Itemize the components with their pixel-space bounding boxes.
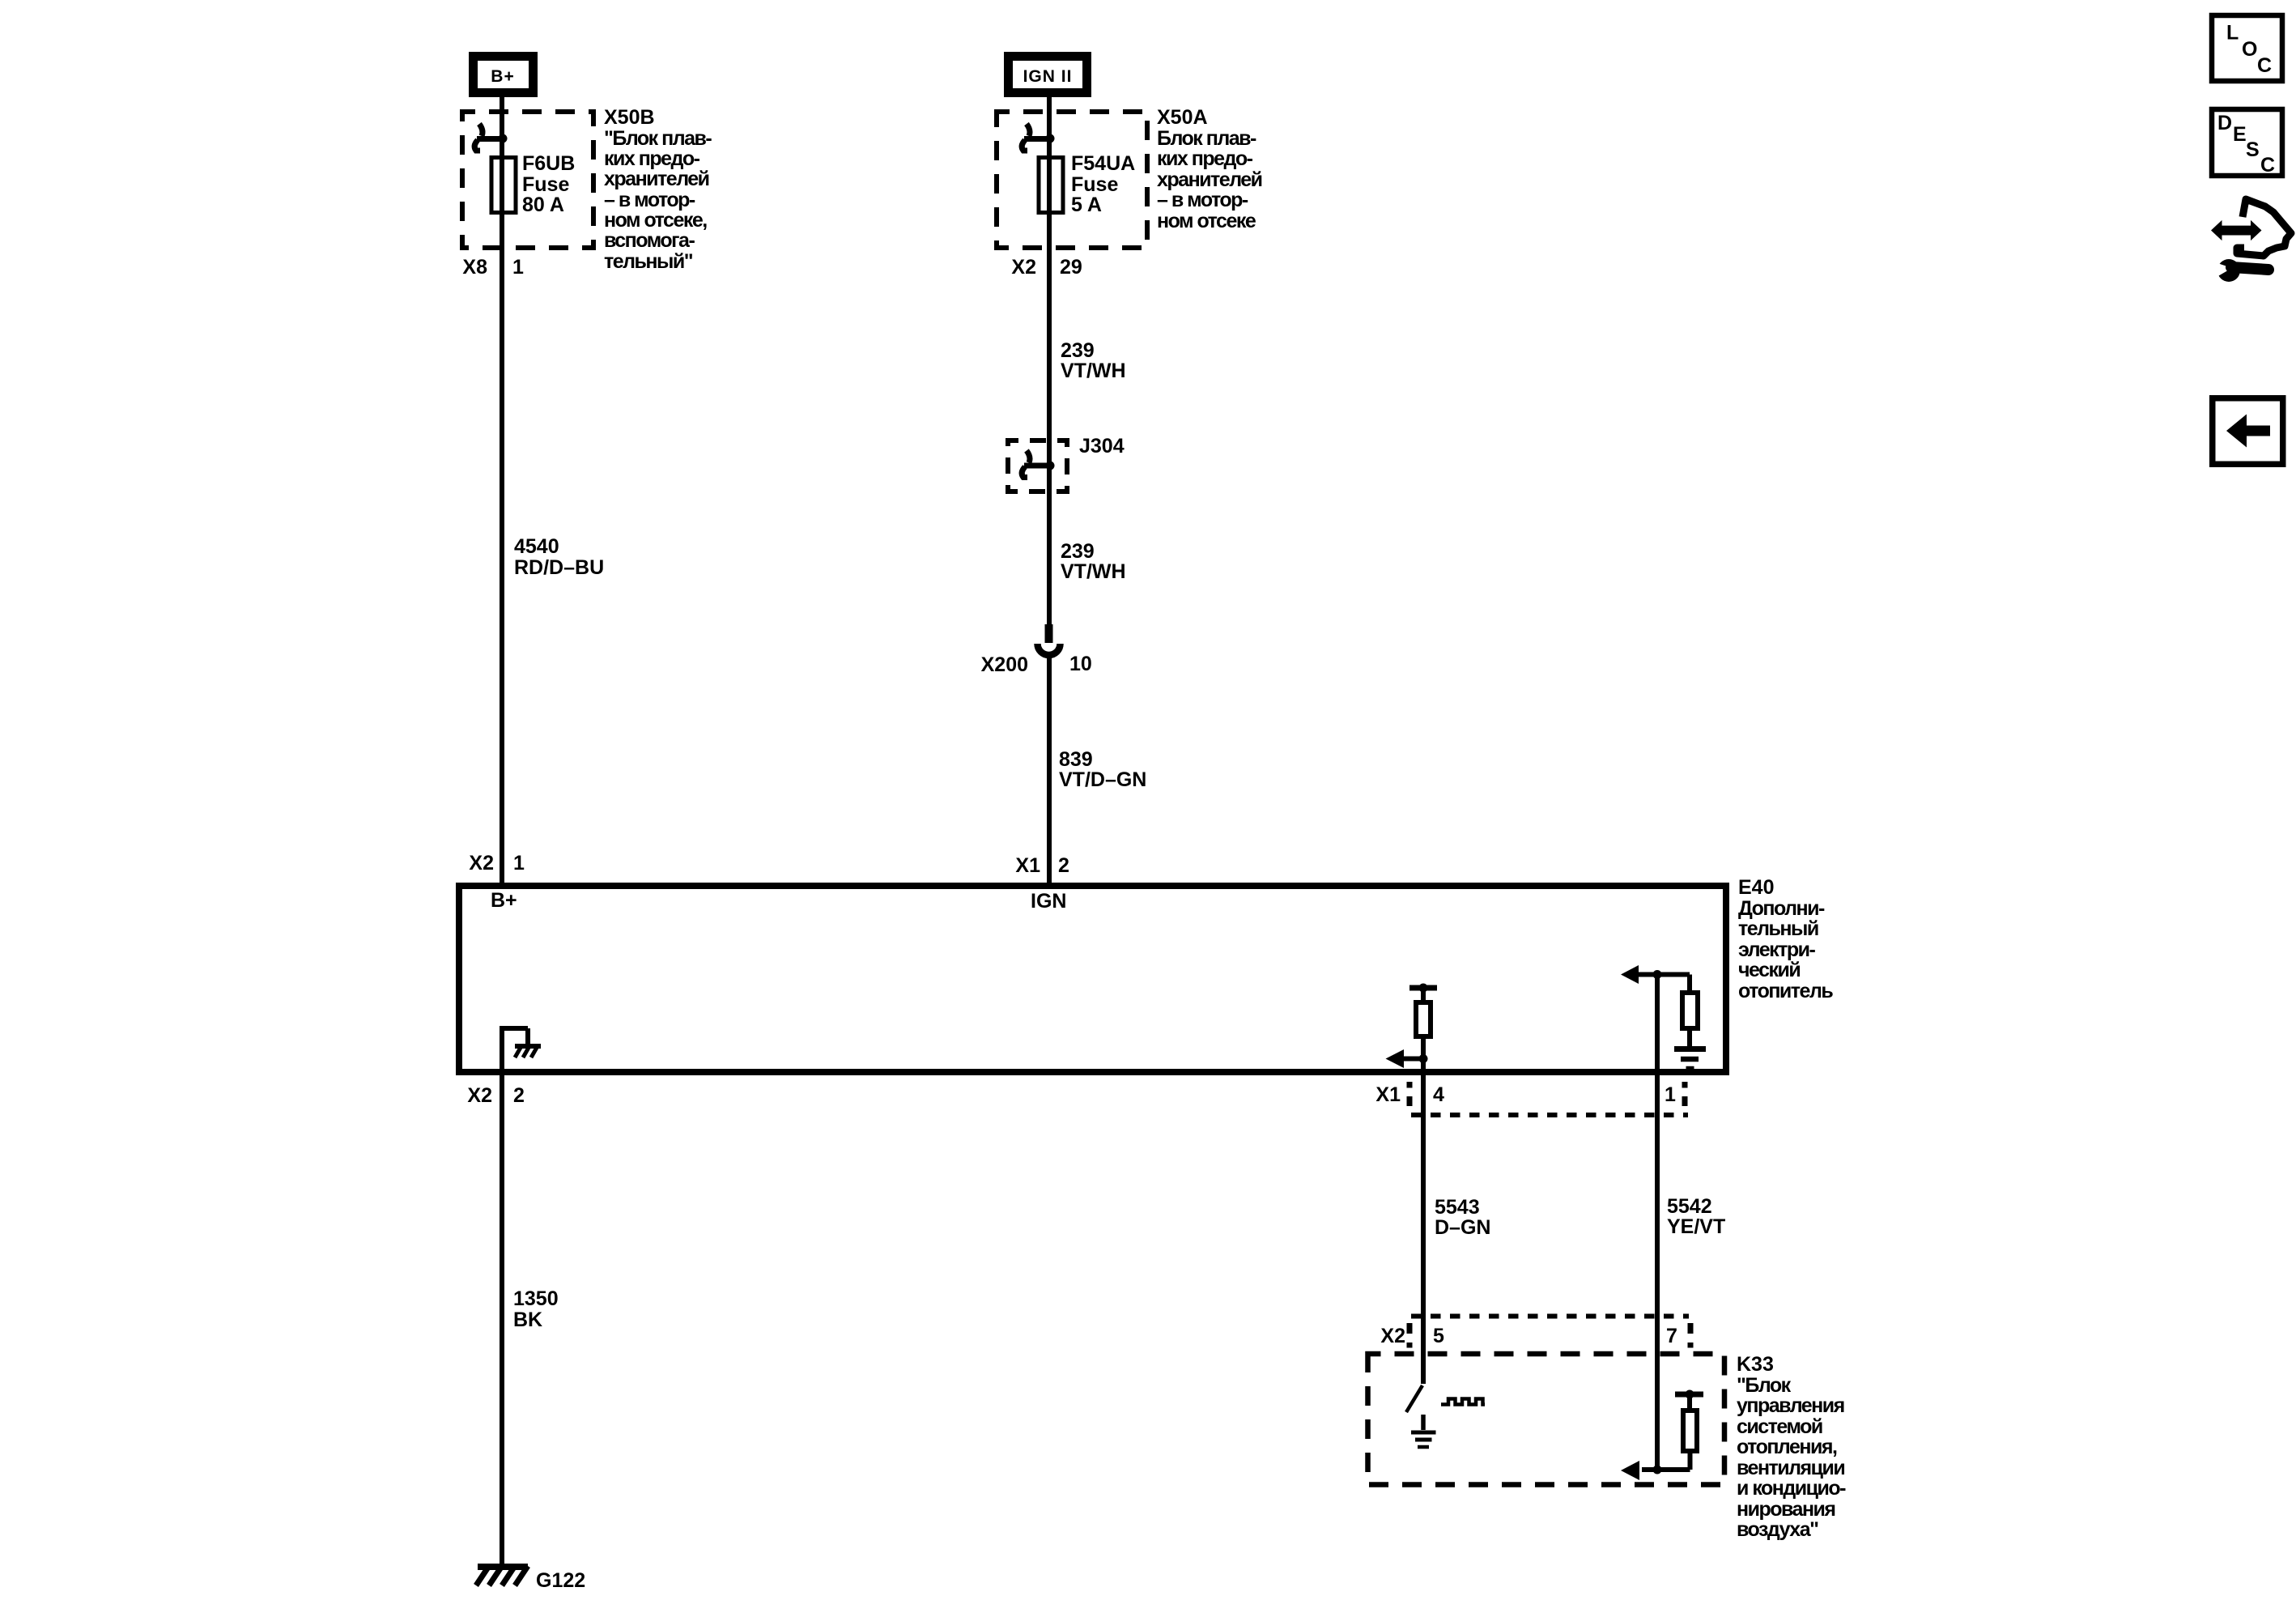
svg-text:1350: 1350	[513, 1287, 559, 1310]
svg-text:системой: системой	[1737, 1415, 1822, 1438]
svg-text:839: 839	[1059, 748, 1093, 771]
svg-text:Дополни-: Дополни-	[1738, 897, 1825, 920]
svg-text:X2: X2	[467, 1084, 492, 1107]
svg-text:вспомога-: вспомога-	[604, 229, 695, 252]
svg-text:RD/D–BU: RD/D–BU	[514, 556, 604, 579]
svg-text:2: 2	[513, 1084, 525, 1107]
svg-text:29: 29	[1060, 256, 1082, 279]
svg-text:YE/VT: YE/VT	[1667, 1215, 1725, 1238]
svg-text:7: 7	[1666, 1325, 1677, 1347]
svg-text:E: E	[2233, 123, 2247, 146]
svg-text:5 A: 5 A	[1071, 194, 1102, 216]
svg-text:X50A: X50A	[1157, 106, 1208, 129]
svg-text:1: 1	[512, 256, 524, 279]
svg-text:отопитель: отопитель	[1738, 980, 1833, 1002]
svg-text:5: 5	[1433, 1325, 1444, 1347]
svg-text:X200: X200	[981, 653, 1028, 676]
svg-text:C: C	[2260, 154, 2275, 177]
svg-text:4: 4	[1433, 1083, 1444, 1106]
svg-text:E40: E40	[1738, 876, 1774, 899]
svg-text:X50B: X50B	[604, 106, 655, 129]
svg-text:5542: 5542	[1667, 1195, 1712, 1218]
svg-text:хранителей: хранителей	[604, 168, 709, 190]
svg-text:"Блок плав-: "Блок плав-	[604, 127, 712, 150]
svg-text:S: S	[2246, 138, 2260, 161]
svg-text:тельный": тельный"	[604, 250, 693, 273]
svg-text:отопления,: отопления,	[1737, 1436, 1837, 1458]
svg-text:5543: 5543	[1435, 1196, 1480, 1219]
svg-text:239: 239	[1061, 540, 1095, 563]
svg-text:239: 239	[1061, 339, 1095, 362]
svg-text:B+: B+	[491, 889, 517, 912]
svg-text:1: 1	[1665, 1083, 1676, 1106]
svg-text:X2: X2	[469, 852, 494, 874]
svg-text:– в мотор-: – в мотор-	[1157, 189, 1248, 211]
svg-text:X2: X2	[1380, 1325, 1405, 1347]
svg-text:10: 10	[1069, 653, 1092, 675]
svg-text:ких предо-: ких предо-	[604, 147, 700, 170]
svg-text:"Блок: "Блок	[1737, 1374, 1792, 1397]
svg-text:L: L	[2226, 22, 2239, 45]
svg-text:X8: X8	[462, 256, 487, 279]
svg-text:X2: X2	[1011, 256, 1036, 279]
svg-text:ких предо-: ких предо-	[1157, 147, 1253, 170]
svg-text:BK: BK	[513, 1308, 542, 1331]
svg-text:нирования: нирования	[1737, 1498, 1835, 1521]
svg-text:X1: X1	[1375, 1083, 1401, 1106]
svg-text:– в мотор-: – в мотор-	[604, 189, 695, 211]
svg-text:и кондицио-: и кондицио-	[1737, 1477, 1846, 1500]
svg-text:80 A: 80 A	[522, 194, 564, 216]
svg-text:X1: X1	[1015, 854, 1040, 877]
svg-text:B+: B+	[491, 67, 514, 86]
svg-text:электри-: электри-	[1738, 938, 1816, 961]
svg-text:D: D	[2217, 112, 2232, 134]
svg-text:VT/WH: VT/WH	[1061, 360, 1126, 382]
svg-text:1: 1	[513, 852, 525, 874]
svg-text:4540: 4540	[514, 535, 559, 558]
svg-text:F54UA: F54UA	[1071, 152, 1135, 175]
svg-text:2: 2	[1058, 854, 1069, 877]
svg-text:VT/WH: VT/WH	[1061, 560, 1126, 583]
svg-text:IGN: IGN	[1031, 890, 1066, 913]
svg-text:Fuse: Fuse	[1071, 173, 1118, 196]
svg-text:Fuse: Fuse	[522, 173, 569, 196]
svg-text:O: O	[2242, 38, 2257, 61]
svg-text:ном отсеке,: ном отсеке,	[604, 209, 707, 232]
svg-text:VT/D–GN: VT/D–GN	[1059, 768, 1146, 791]
svg-text:Блок плав-: Блок плав-	[1157, 127, 1256, 150]
svg-text:J304: J304	[1079, 435, 1125, 457]
svg-text:IGN II: IGN II	[1023, 67, 1073, 86]
svg-text:воздуха": воздуха"	[1737, 1518, 1818, 1541]
svg-text:G122: G122	[536, 1569, 585, 1592]
svg-text:управления: управления	[1737, 1394, 1844, 1417]
svg-text:вентиляции: вентиляции	[1737, 1457, 1844, 1479]
svg-text:D–GN: D–GN	[1435, 1216, 1490, 1239]
svg-text:ческий: ческий	[1738, 959, 1800, 981]
svg-text:ном отсеке: ном отсеке	[1157, 210, 1256, 232]
svg-text:хранителей: хранителей	[1157, 168, 1262, 191]
svg-text:F6UB: F6UB	[522, 152, 575, 175]
svg-text:K33: K33	[1737, 1353, 1774, 1376]
svg-text:тельный: тельный	[1738, 917, 1818, 940]
svg-text:C: C	[2257, 54, 2272, 77]
